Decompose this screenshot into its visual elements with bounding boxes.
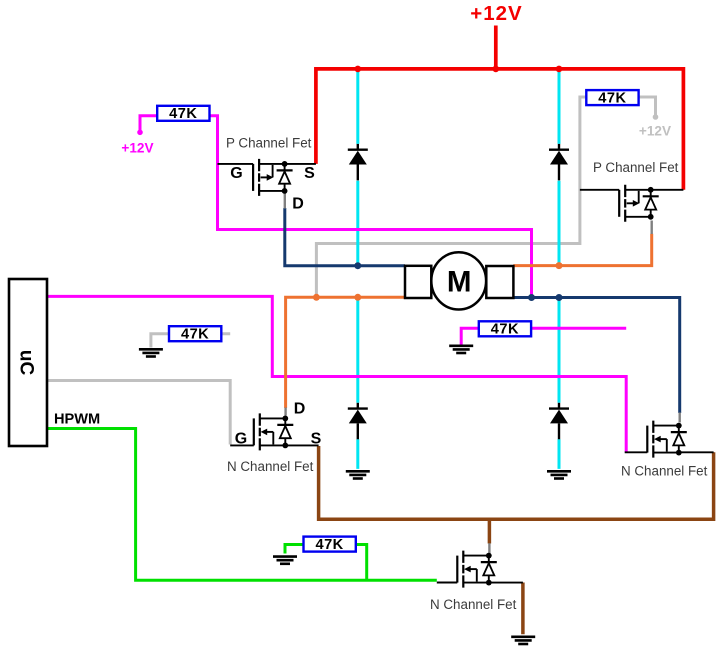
svg-text:M: M [447,266,472,299]
svg-text:N Channel Fet: N Channel Fet [621,464,708,479]
svg-text:uC: uC [16,350,37,376]
svg-text:HPWM: HPWM [54,412,100,428]
svg-text:N Channel Fet: N Channel Fet [430,597,517,612]
svg-text:D: D [294,400,306,417]
svg-text:+12V: +12V [470,2,522,25]
svg-text:G: G [235,431,247,448]
svg-text:S: S [311,431,322,448]
svg-text:P Channel Fet: P Channel Fet [593,160,679,175]
svg-text:P Channel Fet: P Channel Fet [226,135,312,150]
svg-text:D: D [292,195,304,212]
svg-text:+12V: +12V [121,141,153,156]
svg-text:N Channel Fet: N Channel Fet [227,459,314,474]
svg-text:+12V: +12V [639,124,671,139]
svg-text:S: S [304,165,315,182]
svg-text:G: G [230,165,242,182]
